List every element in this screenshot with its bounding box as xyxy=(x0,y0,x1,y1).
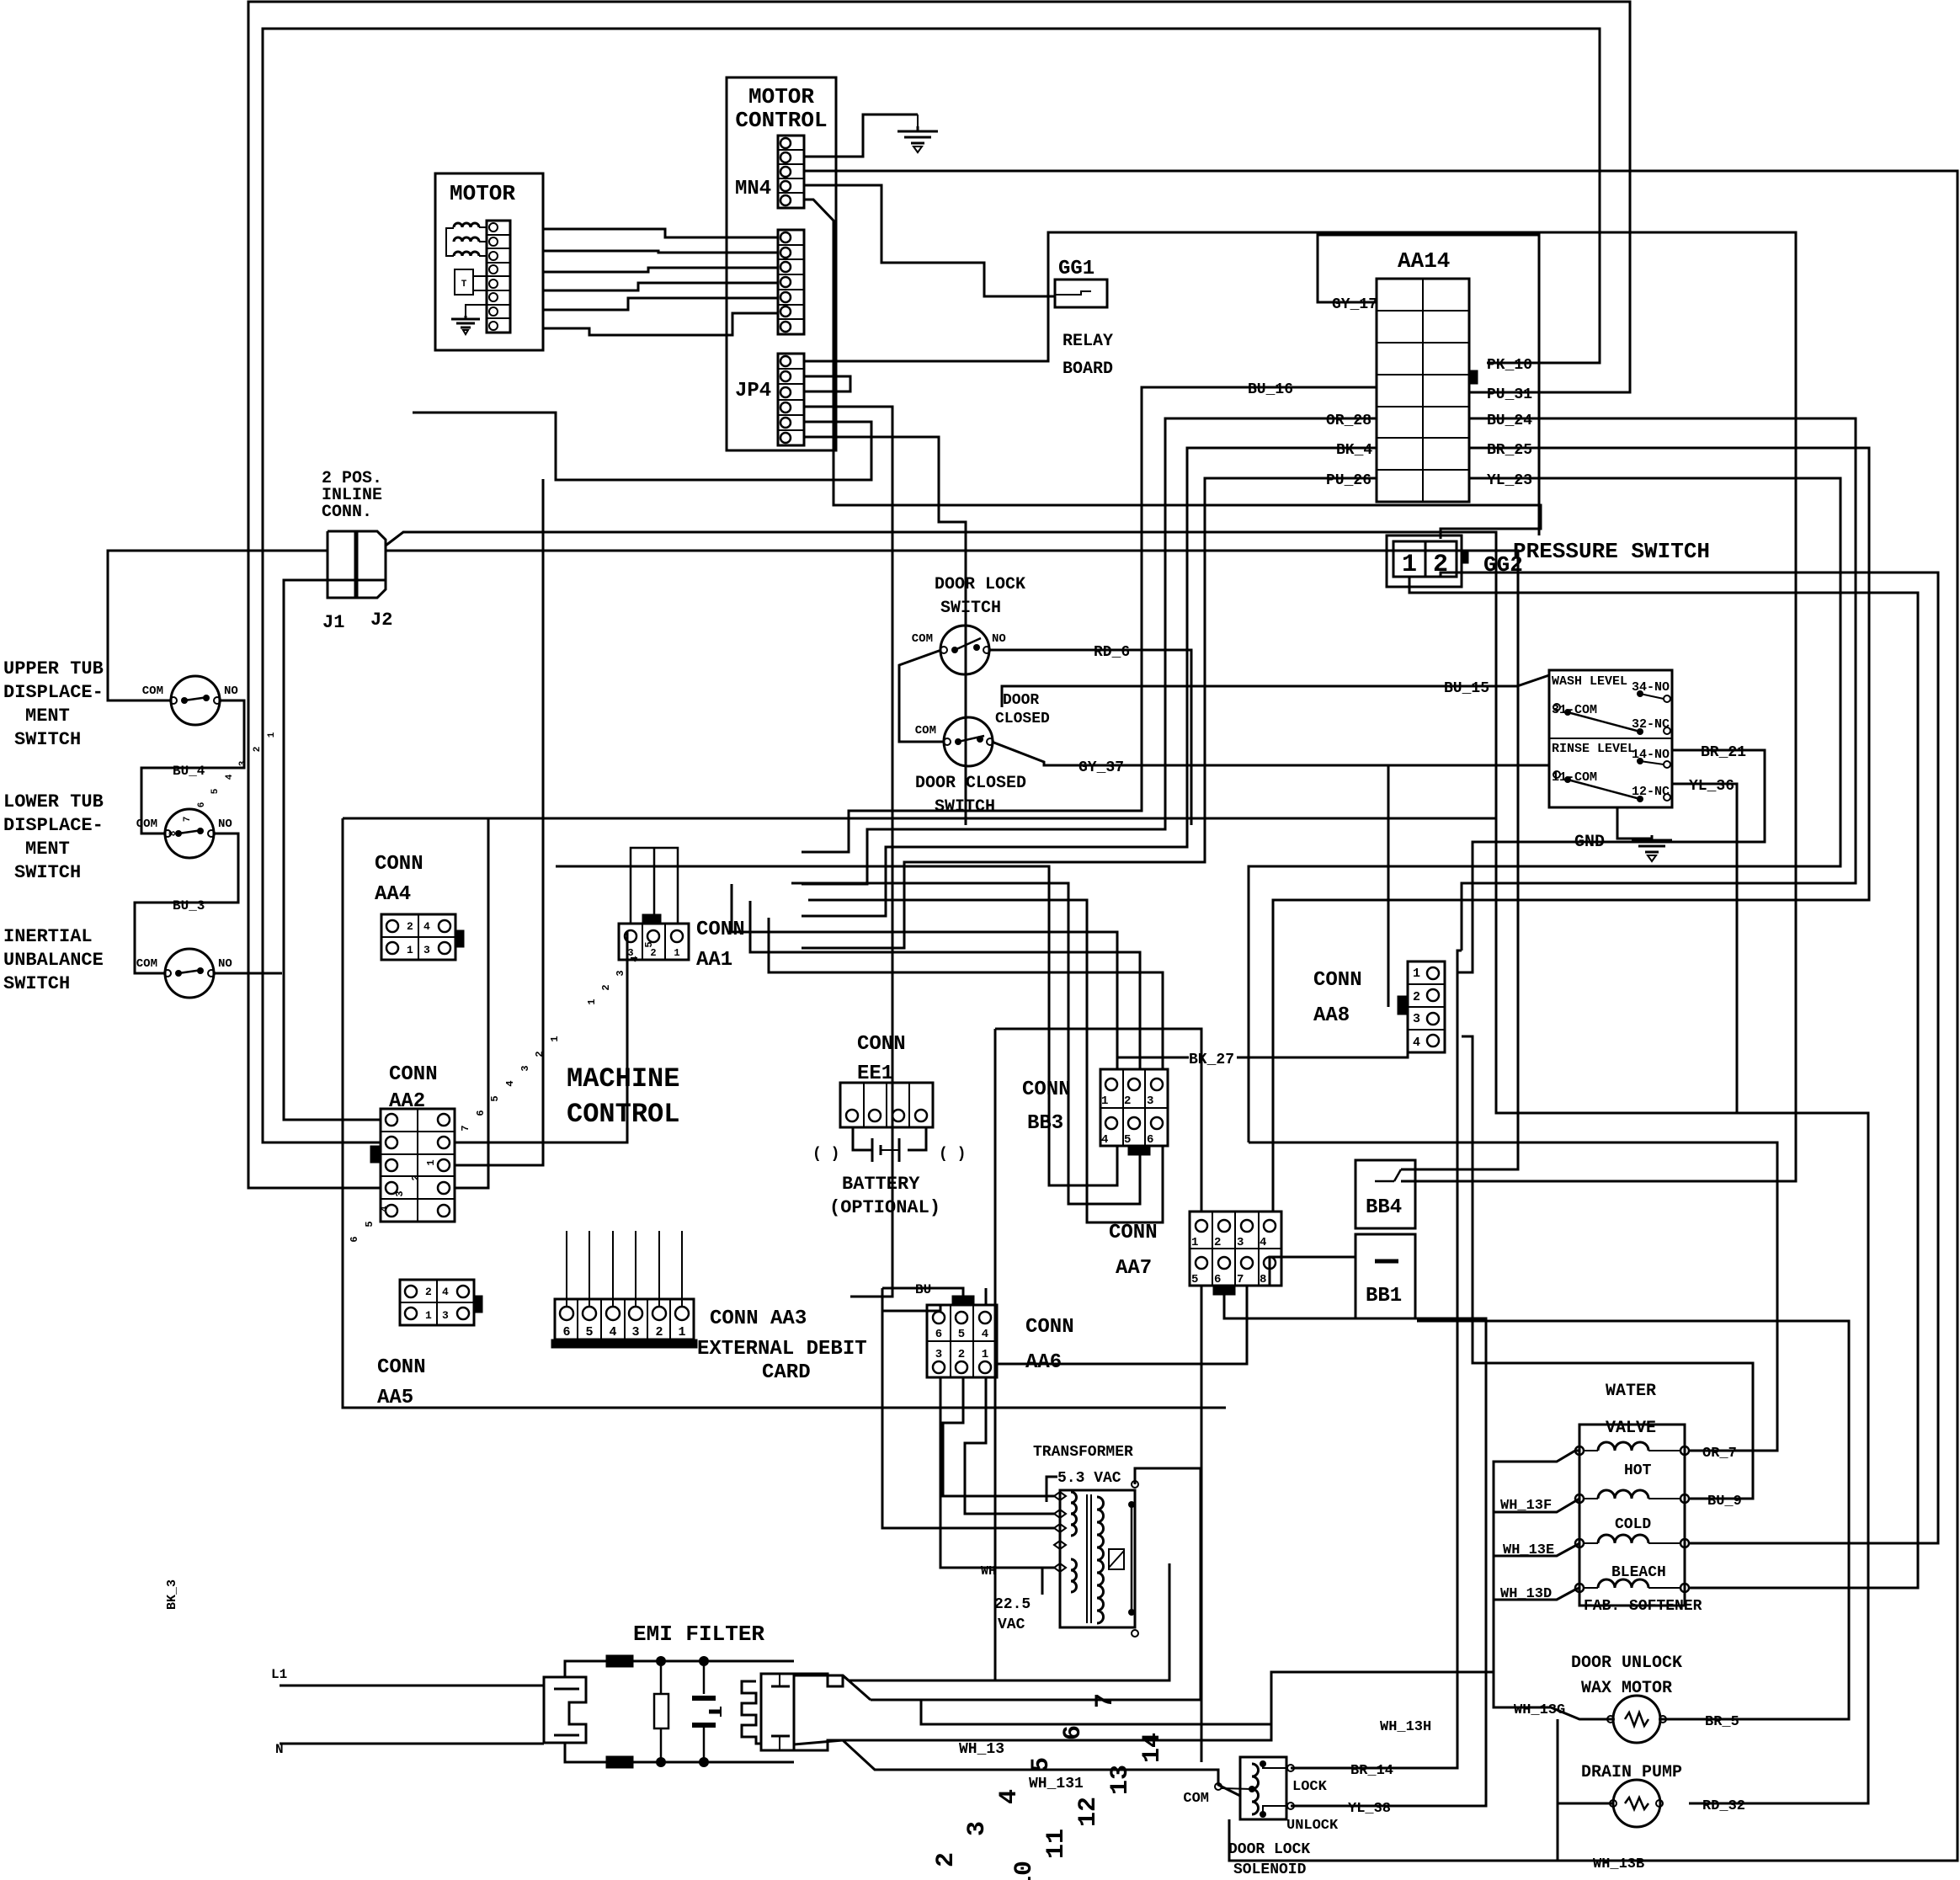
svg-text:4: 4 xyxy=(609,1325,616,1339)
wire OR_28 net xyxy=(802,418,1377,884)
svg-text:3: 3 xyxy=(1237,1236,1244,1249)
svg-text:BOARD: BOARD xyxy=(1063,359,1113,379)
svg-text:WH_13D: WH_13D xyxy=(1500,1586,1552,1602)
svg-text:3: 3 xyxy=(963,1821,992,1836)
svg-text:WH_13E: WH_13E xyxy=(1503,1542,1554,1558)
svg-text:BU_24: BU_24 xyxy=(1487,413,1532,429)
svg-text:CARD: CARD xyxy=(762,1361,811,1384)
svg-text:MOTOR: MOTOR xyxy=(450,181,515,206)
wire N line xyxy=(280,1743,544,1745)
wire WH_13A net (MN4 pin2 to GG1) xyxy=(804,185,1055,296)
wire L1 line xyxy=(280,1685,544,1687)
wire BB4 feed net (JP4 pin1 up over to right edge down to BB4) xyxy=(804,232,1796,1181)
wire door lock COM wire BK_3 xyxy=(899,650,945,742)
svg-text:GY_17: GY_17 xyxy=(1332,296,1377,313)
wire YL_36 net xyxy=(1672,784,1737,1113)
wire AA2 pin3 right run xyxy=(454,1164,456,1167)
svg-text:6: 6 xyxy=(349,1236,360,1242)
svg-text:7: 7 xyxy=(460,1125,471,1131)
wire BU_24 net xyxy=(1462,418,1856,951)
wire EE1 battery left xyxy=(853,1127,872,1150)
svg-text:DOOR LOCK: DOOR LOCK xyxy=(1228,1841,1310,1858)
svg-text:AA4: AA4 xyxy=(375,883,411,906)
svg-text:BU_16: BU_16 xyxy=(1248,381,1293,398)
svg-text:CONN.: CONN. xyxy=(322,503,372,522)
svg-text:2: 2 xyxy=(932,1852,961,1867)
wire pressure GND stem xyxy=(1617,807,1652,839)
wire BK_4 net xyxy=(802,448,1377,916)
connector AA3 xyxy=(555,1299,694,1339)
svg-text:PRESSURE SWITCH: PRESSURE SWITCH xyxy=(1513,539,1710,564)
wire EMI diag 1 xyxy=(843,1675,871,1700)
wire BU_15 net xyxy=(1002,675,1549,707)
svg-text:RINSE LEVEL: RINSE LEVEL xyxy=(1552,742,1635,756)
wire GY_37 horizontal xyxy=(1044,764,1074,767)
wire RD_6 net (door lock NO right) xyxy=(989,650,1191,825)
wire BR_21 net xyxy=(1462,750,1765,972)
svg-text:6: 6 xyxy=(475,1110,487,1116)
svg-text:14: 14 xyxy=(1138,1733,1167,1763)
wire machine ctl bottom bus 1 xyxy=(556,865,775,868)
wire valve feed bus xyxy=(1494,1451,1579,1672)
svg-text:VAC: VAC xyxy=(998,1616,1025,1633)
svg-text:YL_38: YL_38 xyxy=(1348,1801,1391,1817)
svg-text:4: 4 xyxy=(982,1328,988,1341)
wire JP4 pin6 run down xyxy=(804,437,966,825)
connector AA8 xyxy=(1408,961,1445,1052)
wire WH_13F jog xyxy=(1494,1499,1579,1512)
svg-text:GG1: GG1 xyxy=(1058,258,1095,280)
wire inertial NO to BU_40 run xyxy=(214,972,282,975)
wire YL_29 net (down into machine control) xyxy=(455,479,543,1165)
upper tub displacement switch S1 xyxy=(171,676,220,725)
svg-text:WH_13H: WH_13H xyxy=(1380,1719,1431,1735)
wire AA8 pin1 to door lock LOCK xyxy=(1457,972,1462,974)
relay BB4 xyxy=(1355,1160,1415,1228)
motor control board U1 xyxy=(727,77,836,450)
wire AA6 pin6 top left xyxy=(882,1305,1054,1528)
wire BR_5 net xyxy=(1417,1321,1849,1719)
svg-text:5: 5 xyxy=(1191,1273,1198,1286)
wire AA7 pin1 up xyxy=(995,1029,1201,1212)
svg-text:5: 5 xyxy=(958,1328,965,1341)
svg-text:CONN: CONN xyxy=(375,853,423,876)
connector BB3 xyxy=(1100,1069,1168,1146)
svg-text:1: 1 xyxy=(586,999,598,1004)
svg-text:AA8: AA8 xyxy=(1313,1004,1350,1027)
svg-text:COM: COM xyxy=(1183,1791,1209,1807)
svg-text:NO: NO xyxy=(224,684,238,698)
wire GG2 feed (MN4 pin1) xyxy=(804,200,1541,539)
connector AA1 xyxy=(619,924,689,960)
wire BU from AA6 pin2 down xyxy=(943,1377,1054,1496)
svg-text:3: 3 xyxy=(935,1348,942,1361)
wire EMI out 1 upper xyxy=(794,1675,849,1680)
svg-text:3: 3 xyxy=(615,970,626,976)
svg-text:4: 4 xyxy=(1101,1133,1108,1147)
svg-text:CONN: CONN xyxy=(1313,969,1362,992)
svg-text:BU: BU xyxy=(915,1282,931,1297)
svg-text:BU_3: BU_3 xyxy=(173,898,205,913)
wire WH_13E jog xyxy=(1494,1543,1579,1556)
svg-text:12: 12 xyxy=(1074,1797,1103,1827)
svg-text:2: 2 xyxy=(600,984,612,990)
svg-text:CONN AA3: CONN AA3 xyxy=(710,1307,807,1330)
wire AA8 pin1 right-down to LOCK xyxy=(1291,951,1462,1768)
svg-text:BU_15: BU_15 xyxy=(1444,680,1489,697)
svg-text:MN4: MN4 xyxy=(735,178,771,200)
connector AA2 xyxy=(381,1109,455,1222)
svg-text:HOT: HOT xyxy=(1624,1462,1652,1479)
svg-text:5: 5 xyxy=(1027,1757,1056,1772)
machine control board outline xyxy=(343,818,1226,1408)
wire J2 diagonal upper wire to RD_32 chain xyxy=(386,532,1868,1803)
svg-text:YL_23: YL_23 xyxy=(1487,472,1532,489)
svg-text:PU_26: PU_26 xyxy=(1326,472,1371,489)
svg-text:11: 11 xyxy=(1042,1829,1071,1859)
wire BU_16 net xyxy=(802,387,1377,852)
svg-text:RD_6: RD_6 xyxy=(1094,644,1130,661)
wire AA8 pin4 to BU_9 chain xyxy=(1462,1036,1753,1499)
wire WH_13 to valve bus xyxy=(1169,1739,1171,1742)
connector EE1 xyxy=(840,1083,933,1127)
svg-text:CONN: CONN xyxy=(1025,1316,1074,1339)
svg-text:CONTROL: CONTROL xyxy=(567,1099,679,1130)
connector AA5 xyxy=(400,1280,474,1325)
inertial unbalance switch S3 xyxy=(165,949,214,998)
svg-text:7: 7 xyxy=(183,817,193,823)
wire BU_23 net (J1 to upper tub switch COM) xyxy=(108,551,328,700)
svg-text:SOLENOID: SOLENOID xyxy=(1233,1861,1307,1878)
wire BU into AA6 pin5 xyxy=(882,1288,963,1305)
svg-text:2: 2 xyxy=(1413,990,1420,1004)
svg-text:BR_21: BR_21 xyxy=(1701,744,1746,761)
svg-text:2: 2 xyxy=(253,747,263,753)
svg-text:L1: L1 xyxy=(271,1667,287,1682)
svg-text:PK_10: PK_10 xyxy=(1487,357,1532,374)
svg-text:WATER: WATER xyxy=(1606,1382,1656,1401)
svg-text:FAB. SOFTENER: FAB. SOFTENER xyxy=(1584,1598,1702,1615)
svg-text:2: 2 xyxy=(1433,551,1448,579)
svg-text:2: 2 xyxy=(1124,1094,1131,1108)
wire WH_13C run xyxy=(1558,1719,1613,1803)
svg-text:UNLOCK: UNLOCK xyxy=(1286,1818,1339,1834)
connector GG1 xyxy=(1055,280,1107,307)
connector AA14 xyxy=(1377,279,1469,502)
svg-text:3: 3 xyxy=(423,944,430,956)
wire YL_23 net xyxy=(1249,478,1840,1142)
svg-text:4: 4 xyxy=(1260,1236,1266,1249)
wire PU_22 net (GG2 pin1 to fab softener) xyxy=(1409,577,1918,1588)
svg-text:EMI FILTER: EMI FILTER xyxy=(633,1622,764,1647)
wire YL from AA6 pin1 down xyxy=(965,1377,1054,1514)
svg-text:TRANSFORMER: TRANSFORMER xyxy=(1033,1444,1133,1461)
svg-text:NO: NO xyxy=(218,818,232,831)
wire RD_30 net (JP4 pin5 long left) xyxy=(413,413,871,480)
wire PK_20 net (GG2 pin2 to bleach valve) xyxy=(1441,573,1938,1543)
svg-text:1: 1 xyxy=(425,1309,432,1322)
svg-text:COM: COM xyxy=(136,957,157,971)
svg-text:CONN: CONN xyxy=(1022,1078,1071,1101)
wire OR_7 net xyxy=(1249,1142,1777,1451)
wire lower tub NO to BU_3 xyxy=(135,833,238,973)
wire WH_13B lower stub xyxy=(1557,1803,1559,1861)
svg-text:CONN: CONN xyxy=(389,1063,438,1086)
svg-text:BK_3: BK_3 xyxy=(165,1579,179,1610)
svg-text:NO: NO xyxy=(218,957,232,971)
svg-text:7: 7 xyxy=(1237,1273,1244,1286)
debit card signal leads xyxy=(566,1231,567,1307)
wire WH_13H run xyxy=(921,1672,1271,1724)
svg-text:INERTIAL: INERTIAL xyxy=(3,926,93,947)
svg-text:DOOR LOCK: DOOR LOCK xyxy=(935,575,1025,594)
svg-text:WH_13F: WH_13F xyxy=(1500,1498,1552,1514)
svg-text:BK_27: BK_27 xyxy=(1189,1052,1234,1068)
svg-text:6: 6 xyxy=(935,1328,942,1341)
svg-text:BB4: BB4 xyxy=(1366,1196,1402,1219)
svg-text:WH_131: WH_131 xyxy=(1029,1776,1084,1792)
wire PU_31 net (AA14 pin11 to AA2 pin9, wraps top-left) xyxy=(248,2,1630,1188)
svg-text:UNBALANCE: UNBALANCE xyxy=(3,950,104,971)
wire 22.5 VAC bracket xyxy=(1041,1568,1044,1595)
wire BU_9 stub xyxy=(1689,1498,1753,1500)
svg-text:1: 1 xyxy=(1101,1094,1108,1108)
svg-text:SWITCH: SWITCH xyxy=(14,862,81,883)
svg-text:DOOR CLOSED: DOOR CLOSED xyxy=(915,774,1026,793)
svg-text:J1: J1 xyxy=(322,612,344,633)
transformer T1 xyxy=(1060,1490,1135,1627)
svg-text:NO: NO xyxy=(992,632,1006,646)
svg-text:BU_9: BU_9 xyxy=(1707,1494,1742,1510)
wire WH wire motor pin2 xyxy=(543,251,778,253)
wire GY_17 net xyxy=(1318,235,1539,535)
wire BU_40 net (J2 bottom down to AA2 pin6) xyxy=(284,580,386,1120)
svg-text:WH_13G: WH_13G xyxy=(1514,1702,1565,1718)
svg-text:BK_4: BK_4 xyxy=(1336,442,1372,459)
wire BK_2 net (AA1 area down to EMI) xyxy=(994,1029,997,1680)
svg-text:CONTROL: CONTROL xyxy=(735,108,827,133)
svg-text:BR_5: BR_5 xyxy=(1705,1714,1739,1730)
svg-text:3: 3 xyxy=(238,760,248,766)
wire GY_11 alt vertical xyxy=(1387,765,1390,1007)
svg-text:2: 2 xyxy=(650,947,656,959)
wire AA7 pin6 down xyxy=(1224,1286,1486,1806)
svg-text:CLOSED: CLOSED xyxy=(995,711,1050,727)
svg-text:2: 2 xyxy=(425,1286,432,1298)
svg-text:4: 4 xyxy=(1413,1036,1420,1050)
svg-text:WH: WH xyxy=(981,1564,996,1579)
wire AA7 pin8 down xyxy=(1270,1257,1355,1286)
svg-text:COM: COM xyxy=(136,818,157,831)
wire solenoid COM from WH_131 xyxy=(1217,1770,1220,1785)
svg-text:AA1: AA1 xyxy=(696,949,732,972)
svg-text:4: 4 xyxy=(995,1789,1024,1804)
svg-text:LOCK: LOCK xyxy=(1292,1779,1328,1795)
svg-text:3: 3 xyxy=(519,1065,531,1071)
svg-text:1: 1 xyxy=(1191,1236,1198,1249)
wire BK_27 net xyxy=(1117,1047,1189,1057)
wire BR_14 xyxy=(1294,1767,1457,1769)
svg-text:COLD: COLD xyxy=(1615,1516,1651,1533)
svg-text:SWITCH: SWITCH xyxy=(14,729,81,750)
svg-text:N: N xyxy=(275,1742,284,1757)
wire GN wire motor pin6 xyxy=(543,313,778,335)
svg-text:22.5: 22.5 xyxy=(994,1596,1031,1613)
svg-text:T: T xyxy=(461,280,467,290)
svg-text:6: 6 xyxy=(197,802,207,808)
svg-text:3: 3 xyxy=(442,1309,449,1322)
svg-text:LOWER TUB: LOWER TUB xyxy=(3,791,104,812)
wire PU_26 net xyxy=(802,478,1377,948)
svg-text:RD_32: RD_32 xyxy=(1702,1798,1745,1814)
wire MN4 pin4 to chassis ground xyxy=(804,115,918,157)
svg-text:SWITCH: SWITCH xyxy=(940,599,1001,618)
wire JP4 pin2 stub xyxy=(804,376,850,391)
svg-text:BR_14: BR_14 xyxy=(1350,1763,1393,1779)
svg-text:EXTERNAL DEBIT: EXTERNAL DEBIT xyxy=(697,1338,867,1361)
svg-text:2: 2 xyxy=(1214,1236,1221,1249)
svg-text:5: 5 xyxy=(210,788,221,794)
svg-text:2: 2 xyxy=(534,1051,546,1057)
connector AA4 xyxy=(381,914,455,960)
svg-text:GY_37: GY_37 xyxy=(1079,759,1124,776)
svg-text:(OPTIONAL): (OPTIONAL) xyxy=(829,1197,940,1218)
svg-text:OR_7: OR_7 xyxy=(1702,1446,1737,1462)
svg-text:1: 1 xyxy=(674,947,679,959)
wire AA2 pin2 to AA4 region xyxy=(455,932,627,1142)
svg-text:4: 4 xyxy=(423,920,430,933)
svg-text:5: 5 xyxy=(364,1221,375,1227)
svg-text:BATTERY: BATTERY xyxy=(842,1174,920,1195)
svg-text:1: 1 xyxy=(267,732,277,738)
svg-text:3: 3 xyxy=(1147,1094,1153,1108)
svg-text:5: 5 xyxy=(1124,1133,1131,1147)
svg-text:3: 3 xyxy=(631,1325,639,1339)
svg-text:OR_28: OR_28 xyxy=(1326,413,1371,429)
svg-text:1: 1 xyxy=(1413,967,1420,981)
svg-text:WAX MOTOR: WAX MOTOR xyxy=(1581,1679,1672,1698)
svg-text:6: 6 xyxy=(1214,1273,1221,1286)
wire BK wire motor pin3 xyxy=(543,268,778,272)
svg-text:8: 8 xyxy=(1260,1273,1266,1286)
svg-text:CONN: CONN xyxy=(1109,1222,1158,1244)
door closed switch S5 xyxy=(944,717,993,766)
wire AA6 pin5 chain via BU label xyxy=(881,1288,884,1311)
wire WH_13D jog xyxy=(1494,1588,1579,1600)
wire BB3 pin3 up-left xyxy=(769,918,1163,1069)
svg-text:BU_4: BU_4 xyxy=(173,764,205,779)
svg-text:CONN: CONN xyxy=(377,1356,426,1379)
svg-text:MACHINE: MACHINE xyxy=(567,1063,679,1094)
svg-text:COM: COM xyxy=(915,724,936,738)
svg-text:CONN: CONN xyxy=(696,919,745,941)
svg-text:WH_13: WH_13 xyxy=(959,1741,1004,1758)
svg-text:3: 3 xyxy=(627,947,633,959)
svg-text:AA2: AA2 xyxy=(389,1090,425,1113)
wire AA7 pin7 down xyxy=(995,1286,1247,1364)
svg-text:WH_13B: WH_13B xyxy=(1593,1856,1644,1872)
wire WH_13J net xyxy=(871,1468,1201,1700)
svg-text:CONN: CONN xyxy=(857,1033,906,1056)
relay BB1 xyxy=(1355,1234,1415,1318)
wire BB3 pin2 up-left xyxy=(750,901,1140,1069)
wire BR wire motor pin1 to JP4 pin1 xyxy=(543,229,778,237)
connector motor-wires strip xyxy=(778,230,804,334)
wire PK_10 net (AA14 pin12 to AA2 pin7, wraps top-left) xyxy=(263,29,1600,1142)
svg-text:WASH LEVEL: WASH LEVEL xyxy=(1552,674,1627,689)
svg-text:AA14: AA14 xyxy=(1398,248,1450,274)
wire GY wire motor pin5 xyxy=(543,298,778,310)
svg-text:1: 1 xyxy=(407,944,413,956)
svg-text:4: 4 xyxy=(225,774,235,780)
wire BR_25 net xyxy=(1273,448,1869,1212)
chassis ground xyxy=(917,115,919,130)
lower tub displacement switch S2 xyxy=(165,809,214,858)
connector GG2 xyxy=(1387,535,1462,587)
wire WH_13G run xyxy=(1494,1672,1614,1719)
wire BB3 pin5 down-left loop xyxy=(791,883,1140,1204)
svg-text:RELAY: RELAY xyxy=(1063,332,1113,351)
svg-text:7: 7 xyxy=(1091,1693,1120,1708)
svg-text:10: 10 xyxy=(1010,1861,1039,1880)
wire BK_1 net xyxy=(849,1563,1169,1680)
svg-text:SWITCH: SWITCH xyxy=(935,797,995,817)
svg-text:4: 4 xyxy=(504,1080,516,1086)
svg-text:2: 2 xyxy=(407,920,413,933)
connector AA7 xyxy=(1190,1212,1281,1286)
svg-text:BR_25: BR_25 xyxy=(1487,442,1532,459)
svg-text:GND: GND xyxy=(1574,833,1605,852)
door lock solenoid SOL1 xyxy=(1240,1757,1286,1819)
wire door closed NO to GY_37 xyxy=(992,732,1549,765)
svg-text:SWITCH: SWITCH xyxy=(3,973,70,994)
wire AA7 pin5 down xyxy=(1201,1286,1203,1762)
door lock switch S4 xyxy=(940,626,989,674)
label BK_3 xyxy=(165,1579,179,1610)
svg-text:( ): ( ) xyxy=(812,1146,839,1163)
connector AA6 xyxy=(927,1305,997,1377)
svg-text:3: 3 xyxy=(1413,1012,1420,1026)
wire WH_131 net xyxy=(843,1740,1240,1796)
svg-text:COM: COM xyxy=(912,632,933,646)
wire OR_12 net (AA2 pin4 up right) xyxy=(455,818,488,1188)
svg-text:1: 1 xyxy=(678,1325,685,1339)
svg-text:DISPLACE-: DISPLACE- xyxy=(3,682,104,703)
svg-text:DOOR UNLOCK: DOOR UNLOCK xyxy=(1571,1654,1682,1673)
svg-text:AA6: AA6 xyxy=(1025,1351,1062,1374)
svg-text:AA5: AA5 xyxy=(377,1387,413,1409)
wire GY wire motor pin4 xyxy=(543,283,778,290)
wire WH_13 riser xyxy=(1169,1672,1494,1740)
svg-text:VALVE: VALVE xyxy=(1606,1419,1656,1438)
svg-text:BB3: BB3 xyxy=(1027,1112,1063,1135)
svg-text:BB1: BB1 xyxy=(1366,1285,1402,1307)
wire WH from AA6 pin3 down xyxy=(940,1377,1054,1568)
svg-text:6: 6 xyxy=(562,1325,570,1339)
connector MN4 xyxy=(778,136,804,208)
wire BB3 pin6 down-left loop xyxy=(808,900,1163,1222)
svg-text:PU_31: PU_31 xyxy=(1487,386,1532,403)
svg-text:MOTOR: MOTOR xyxy=(748,84,814,109)
svg-text:MENT: MENT xyxy=(25,839,70,860)
svg-text:AA7: AA7 xyxy=(1116,1257,1152,1280)
svg-text:5: 5 xyxy=(489,1095,501,1101)
wire BK_27 to AA8 pin2/3 area xyxy=(1237,999,1408,1057)
connector JP4 xyxy=(778,354,804,445)
svg-text:1: 1 xyxy=(549,1036,561,1041)
svg-text:6: 6 xyxy=(1059,1725,1088,1740)
svg-text:YL_36: YL_36 xyxy=(1689,778,1734,795)
